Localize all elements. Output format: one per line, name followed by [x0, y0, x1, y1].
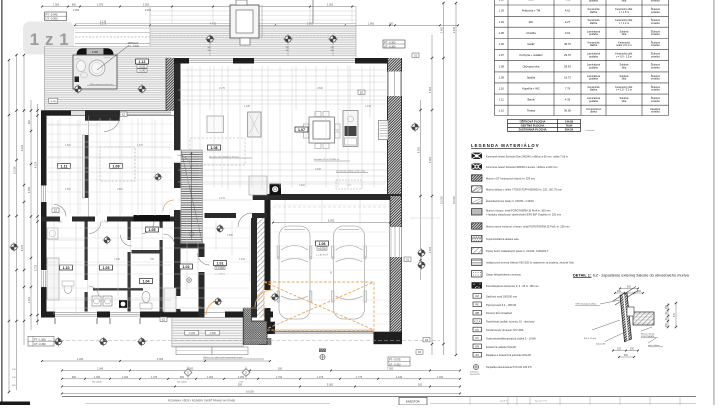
- legend entry wood chip: [472, 282, 539, 288]
- svg-text:150: 150: [617, 348, 622, 351]
- svg-text:exter. žalúzie: exter. žalúzie: [648, 344, 661, 347]
- dashed furniture zone 1.09: [100, 147, 135, 181]
- garage bottom wall and door: [259, 322, 402, 345]
- svg-text:PT: -0.340: PT: -0.340: [46, 12, 58, 16]
- entrance door swing orange: [206, 300, 221, 315]
- svg-text:200: 200: [637, 290, 642, 293]
- wall right of zadverie 1.01: [251, 218, 265, 318]
- svg-text:900: 900: [180, 376, 185, 379]
- svg-text:4.01: 4.01: [565, 0, 571, 1]
- legend symbol KV2: [473, 336, 536, 341]
- svg-text:dlažba: dlažba: [590, 22, 598, 25]
- svg-text:UT: -0.300: UT: -0.300: [34, 343, 46, 346]
- svg-text:1.12: 1.12: [139, 60, 146, 64]
- page badge 1 z 1: [23, 22, 74, 55]
- column symbol room 1.09: [154, 173, 163, 182]
- svg-text:1.06: 1.06: [499, 42, 505, 46]
- svg-text:35.70: 35.70: [564, 42, 571, 46]
- whirlpool: [73, 48, 117, 89]
- kitchen island: [248, 112, 261, 137]
- svg-text:podlaha: podlaha: [589, 33, 599, 36]
- svg-text:1.900: 1.900: [53, 4, 60, 7]
- room label 1.01: [214, 261, 227, 270]
- svg-text:Murivo nosné vnútorné z keram.: Murivo nosné vnútorné z keram. tehál POR…: [486, 225, 570, 229]
- section diamond symbol 2: [242, 366, 250, 380]
- svg-text:EZ: EZ: [162, 318, 166, 321]
- svg-text:PT: -0.300: PT: -0.300: [384, 41, 396, 44]
- wc 1.04 toilet: [140, 292, 152, 310]
- bottom note text partial: [85, 400, 330, 404]
- svg-text:Rozdeľovač podlah. kúrenia, 10: Rozdeľovač podlah. kúrenia, 10 - okruhov…: [486, 320, 535, 324]
- svg-text:Kuchyňa + Jedáleň: Kuchyňa + Jedáleň: [520, 53, 543, 57]
- svg-text:36.00: 36.00: [564, 108, 571, 112]
- svg-text:1.08: 1.08: [499, 64, 505, 68]
- svg-text:EN: EN: [475, 346, 479, 349]
- top chain drop lines: [172, 7, 352, 23]
- garage left wall: [265, 200, 271, 332]
- svg-text:dlažba: dlažba: [590, 89, 598, 92]
- svg-text:EZ: EZ: [122, 113, 126, 116]
- svg-text:1.400: 1.400: [122, 376, 129, 379]
- terrace door swing: [104, 116, 120, 132]
- svg-text:1.500: 1.500: [65, 145, 71, 147]
- svg-text:WC: WC: [529, 20, 534, 24]
- legend entry DT blocks: [472, 175, 536, 181]
- svg-text:2.200: 2.200: [145, 9, 152, 12]
- small level mark box C2: [49, 98, 58, 103]
- legend symbol RB: [473, 310, 513, 315]
- svg-text:1.05: 1.05: [499, 31, 505, 35]
- svg-text:862 (120R): 862 (120R): [177, 382, 187, 384]
- svg-text:1.475: 1.475: [317, 376, 324, 379]
- svg-text:5.000: 5.000: [429, 86, 432, 93]
- svg-text:200: 200: [665, 304, 668, 309]
- svg-text:1.450: 1.450: [94, 376, 101, 379]
- svg-text:+0.030: +0.030: [318, 247, 326, 250]
- pergola post line: [312, 0, 314, 23]
- outer wall left side: [41, 111, 47, 322]
- room label 1.12 Terasa: [136, 59, 149, 72]
- legend heading: [471, 143, 540, 148]
- svg-text:Murivo deliace z tehiel YTONG: Murivo deliace z tehiel YTONG P2/P4-500/…: [486, 188, 562, 192]
- garage right outer wall: [390, 196, 402, 344]
- svg-text:29.70: 29.70: [564, 53, 571, 57]
- PT UT level box top-left: [45, 12, 67, 21]
- svg-text:PT: -0.075: PT: -0.075: [389, 359, 401, 362]
- garage inner width dimension: [272, 220, 391, 224]
- svg-text:8.000: 8.000: [328, 220, 335, 223]
- vent stack symbol garage: [319, 349, 325, 360]
- svg-text:2.27: 2.27: [565, 20, 571, 24]
- svg-text:2.000: 2.000: [327, 4, 334, 7]
- left margin column symbol: [9, 242, 18, 251]
- svg-text:PK: PK: [476, 304, 480, 307]
- svg-text:Stupačka odvetrávania PVC DN 1: Stupačka odvetrávania PVC DN 100 ZTI: [486, 365, 532, 369]
- svg-text:2.175: 2.175: [219, 88, 225, 90]
- interior dimension tick labels: [58, 88, 372, 309]
- svg-text:3.725: 3.725: [35, 264, 38, 271]
- svg-text:dlažba: dlažba: [590, 44, 598, 47]
- svg-text:300: 300: [278, 368, 283, 371]
- legend entry YTONG: [472, 186, 562, 192]
- svg-text:UT: -0.300: UT: -0.300: [384, 45, 396, 48]
- small wall tag boxes: [52, 53, 430, 354]
- svg-text:Dĺžka exteriérová vírivka 4os.: Dĺžka exteriérová vírivka 4os.: [90, 83, 114, 86]
- svg-text:16.72: 16.72: [564, 75, 571, 79]
- terrace column symbol B: [137, 84, 146, 93]
- svg-text:250: 250: [630, 348, 635, 351]
- extra guide lines garage: [274, 205, 389, 324]
- svg-text:4.430: 4.430: [210, 23, 217, 26]
- svg-text:1.10: 1.10: [499, 87, 505, 91]
- legend symbol EN: [473, 344, 516, 349]
- svg-text:UT: -0.300: UT: -0.300: [389, 363, 401, 366]
- extra interior guide lines bedroom wing: [47, 118, 173, 214]
- interior door arcs: [54, 155, 252, 296]
- svg-text:1.100: 1.100: [28, 296, 31, 303]
- svg-text:omietka: omietka: [651, 22, 660, 25]
- svg-text:sokel v=0.1 m: sokel v=0.1 m: [616, 44, 632, 47]
- bottom dimension sub labels: [92, 382, 243, 384]
- bottom total dimension: [61, 391, 461, 395]
- svg-text:VZT: VZT: [347, 185, 352, 187]
- left end labels of bottom chains: [12, 369, 16, 387]
- fridge cabinet: [379, 121, 389, 140]
- column leader texts top: [207, 43, 334, 56]
- bottom column symbols: [54, 292, 280, 346]
- partition wall 1.05-1.04: [132, 250, 160, 254]
- svg-text:1.975: 1.975: [97, 4, 104, 7]
- svg-text:podlaha: podlaha: [589, 67, 599, 70]
- svg-text:Nevadela 700 al 700/1800 zvl.: Nevadela 700 al 700/1800 zvl.: [314, 159, 340, 161]
- svg-text:Tepelnoizolačná deliaca vata: Tepelnoizolačná deliaca vata: [486, 237, 519, 241]
- svg-text:1.040: 1.040: [77, 358, 84, 361]
- svg-text:DZ: DZ: [418, 351, 422, 354]
- legend symbol DZ: [473, 294, 517, 299]
- pool structure: [230, 0, 262, 45]
- svg-text:Nevadela 700x2100/800 k TV ste: Nevadela 700x2100/800 k TV stene: [209, 155, 239, 158]
- svg-text:DETAIL 1:: DETAIL 1:: [573, 273, 591, 278]
- svg-text:omietka: omietka: [651, 0, 660, 3]
- detail 1 heading: [573, 273, 690, 278]
- garage car 2: [332, 226, 367, 319]
- living room rug dashed: [190, 138, 245, 165]
- area summary table: [508, 118, 596, 132]
- svg-text:4.61: 4.61: [565, 9, 571, 13]
- svg-text:s = 35.70 m²: s = 35.70 m²: [316, 254, 328, 257]
- garage center mark: [330, 270, 333, 275]
- svg-text:Drevoštiepkové kamenivo fr. 0: Drevoštiepkové kamenivo fr. 0 - 63 hr. 1…: [486, 284, 539, 288]
- svg-text:Murivo z keram. tehál POROTHER: Murivo z keram. tehál POROTHERM 30 Profi…: [486, 209, 551, 213]
- right dimension chains: [418, 2, 458, 356]
- svg-text:300: 300: [238, 384, 243, 387]
- closet room 1.11: [83, 135, 85, 198]
- right side column symbols: [410, 122, 426, 269]
- svg-text:4.100: 4.100: [21, 144, 24, 151]
- svg-text:1.040: 1.040: [437, 376, 444, 379]
- svg-text:1.975: 1.975: [137, 145, 143, 147]
- legend entry insulation wool: [472, 235, 520, 241]
- svg-text:Dažďový zvod 100/100 mm: Dažďový zvod 100/100 mm: [486, 294, 517, 298]
- legend entry gravel fill: [472, 271, 522, 277]
- svg-text:2.800: 2.800: [117, 189, 123, 191]
- svg-text:KV: KV: [476, 329, 480, 332]
- svg-text:DN 100 ZTI: DN 100 ZTI: [470, 374, 480, 376]
- svg-text:Kúpeľňa + WC: Kúpeľňa + WC: [522, 87, 540, 91]
- svg-text:omietka: omietka: [651, 78, 660, 81]
- legend entry POROTHERM 25: [472, 223, 570, 229]
- section line dashed: [42, 340, 440, 342]
- svg-text:862 (120R): 862 (120R): [92, 382, 102, 384]
- room schedule table: [495, 0, 669, 115]
- svg-text:2.170: 2.170: [219, 198, 225, 200]
- legend symbol RJ: [473, 352, 531, 357]
- terrace chimney wall bar: [166, 58, 174, 111]
- svg-text:podlaha: podlaha: [589, 78, 599, 81]
- bedroom wing middle wall: [41, 215, 174, 222]
- svg-text:lišta: lišta: [622, 78, 627, 81]
- room label 1.03: [100, 265, 113, 270]
- svg-text:DZ: DZ: [476, 295, 480, 298]
- svg-text:250: 250: [665, 322, 668, 327]
- svg-text:Expanzná nádoba SOLAR: Expanzná nádoba SOLAR: [486, 345, 516, 349]
- svg-text:-0.090: -0.090: [209, 333, 216, 335]
- outer wall top of living wing: [174, 58, 402, 64]
- bathroom 1.10 fixtures: [47, 228, 143, 300]
- svg-text:-0.040: -0.040: [139, 69, 146, 72]
- left dimension chains: [8, 54, 39, 393]
- svg-text:Zásyp štrkopieskovou zeminou: Zásyp štrkopieskovou zeminou: [486, 272, 522, 276]
- svg-text:v = 1.5 m: v = 1.5 m: [619, 11, 629, 14]
- svg-text:EZ: EZ: [54, 209, 58, 212]
- svg-text:1.03: 1.03: [103, 266, 110, 270]
- svg-text:LEGENDA MATERIÁLOV: LEGENDA MATERIÁLOV: [471, 143, 540, 148]
- svg-text:4.075: 4.075: [35, 161, 38, 168]
- svg-text:1.12: 1.12: [499, 108, 505, 112]
- legend symbol KZA: [473, 319, 535, 324]
- svg-text:Ing. arch. P. S.: Ing. arch. P. S.: [535, 400, 548, 403]
- svg-text:900: 900: [28, 119, 31, 124]
- room label 1.08: [208, 145, 221, 150]
- svg-text:podlaha: podlaha: [589, 100, 599, 103]
- svg-text:VPV Kronatech 25/xx: VPV Kronatech 25/xx: [576, 303, 598, 306]
- outer wall right side living room: [388, 58, 402, 196]
- right paper edge line: [713, 0, 716, 405]
- terrace retaining wall lines left: [75, 20, 356, 43]
- svg-text:Terasa: Terasa: [527, 108, 536, 112]
- svg-text:omietka: omietka: [651, 33, 660, 36]
- left paper edge line: [1, 0, 2, 405]
- partition wall 1.11-1.09: [85, 116, 89, 217]
- detail 1 drawing: [575, 286, 677, 358]
- legend vent stack entry: [470, 364, 532, 376]
- svg-text:-0.010: -0.010: [189, 333, 196, 335]
- column symbols room 1.01: [214, 224, 225, 306]
- svg-text:8.000: 8.000: [418, 146, 421, 153]
- living room sofa: [207, 116, 267, 195]
- svg-text:+0.00: +0.00: [139, 65, 146, 68]
- room label 1.09: [110, 164, 123, 169]
- svg-text:Spálňa: Spálňa: [527, 75, 536, 79]
- outer wall bottom of left wing: [41, 312, 273, 318]
- svg-text:3.300: 3.300: [429, 156, 432, 163]
- svg-text:Prostý betón základových pásov: Prostý betón základových pásov tr. C16/2…: [486, 249, 549, 253]
- svg-text:12.000: 12.000: [14, 166, 17, 174]
- hallway 1.02 cabinet: [164, 288, 176, 312]
- svg-text:2.250: 2.250: [238, 376, 245, 379]
- svg-text:Garáž: Garáž: [527, 42, 535, 46]
- bottom left corner block: [0, 402, 30, 406]
- svg-text:omietka: omietka: [651, 67, 660, 70]
- svg-text:-0.340: -0.340: [50, 101, 57, 103]
- bottom separator line: [62, 396, 696, 398]
- svg-text:500: 500: [627, 286, 632, 289]
- svg-text:3.300: 3.300: [157, 358, 164, 361]
- svg-text:12.000: 12.000: [441, 196, 444, 204]
- svg-text:1.06: 1.06: [319, 242, 326, 246]
- garage side door swing orange: [255, 290, 273, 307]
- svg-text:2.400: 2.400: [315, 169, 321, 171]
- interior dimension lines horizontals: [46, 90, 440, 308]
- svg-text:UT: -0.300: UT: -0.300: [46, 17, 59, 21]
- chimney block: [270, 184, 282, 196]
- svg-text:15.000: 15.000: [453, 196, 456, 204]
- wall between living room and garage: [253, 194, 402, 200]
- svg-text:3.350: 3.350: [28, 186, 31, 193]
- partition wall 1.02-1.01: [199, 249, 205, 318]
- investor box: [399, 397, 427, 405]
- svg-text:lišta: lišta: [622, 33, 627, 36]
- partition wall 1.10-1.03: [85, 222, 88, 312]
- terrace paving hatch left: [45, 46, 172, 113]
- terrace column symbol A: [73, 84, 82, 93]
- porch caption underline: [203, 356, 264, 359]
- window sill stubs below bottom wall: [55, 318, 140, 324]
- bottom dimension chain row 2: [61, 368, 461, 372]
- extra interior guide lines bottom rooms: [47, 228, 250, 308]
- svg-text:4m –0.400: 4m –0.400: [128, 46, 140, 48]
- wall below staircase: [177, 244, 205, 249]
- svg-text:Ing. M. K.: Ing. M. K.: [500, 401, 509, 403]
- bottom dimension chain row 4: [61, 384, 461, 388]
- svg-text:v = 1.5 - 2.1 m: v = 1.5 - 2.1 m: [616, 89, 632, 92]
- legend entry reinforced concrete: [472, 197, 535, 203]
- bottom right table fragment: [430, 397, 696, 405]
- svg-text:Práčovňa + TM: Práčovňa + TM: [522, 9, 541, 13]
- svg-text:podlaha: podlaha: [589, 0, 599, 3]
- svg-text:4.430: 4.430: [396, 376, 403, 379]
- svg-text:1.09: 1.09: [499, 75, 505, 79]
- svg-text:omietka: omietka: [651, 55, 660, 58]
- svg-text:4.600: 4.600: [299, 185, 305, 187]
- svg-text:1.11: 1.11: [499, 98, 505, 102]
- svg-text:1.075: 1.075: [151, 376, 158, 379]
- svg-text:2.150: 2.150: [453, 26, 456, 33]
- svg-text:podlaha: podlaha: [589, 55, 599, 58]
- svg-text:PT: -1.060: PT: -1.060: [34, 338, 46, 341]
- svg-text:2.000: 2.000: [92, 51, 99, 54]
- svg-text:v = 0.9 - 1.5 m: v = 0.9 - 1.5 m: [616, 55, 632, 58]
- svg-text:6.475: 6.475: [21, 244, 24, 251]
- svg-text:DZ: DZ: [425, 339, 429, 342]
- svg-text:lišta: lišta: [622, 67, 627, 70]
- svg-text:5.000: 5.000: [327, 384, 334, 387]
- legend symbol KV1: [473, 327, 524, 332]
- svg-text:4.33: 4.33: [565, 98, 571, 102]
- svg-text:Murivo z DT betónových tvárnic: Murivo z DT betónových tvárnic hr. 250 m…: [486, 177, 535, 181]
- svg-text:1.05: 1.05: [149, 228, 156, 232]
- PT UT level box top-right: [383, 40, 405, 48]
- right PT UT box: [388, 357, 410, 366]
- svg-text:Plynový kotol 5.4 - 108 kW: Plynový kotol 5.4 - 108 kW: [486, 303, 517, 307]
- svg-text:+ fasádny zatepľovací systém/s: + fasádny zatepľovací systém/sokel EPS 8…: [486, 212, 561, 216]
- svg-text:KV: KV: [476, 337, 480, 340]
- svg-text:1.045: 1.045: [244, 106, 250, 108]
- legend entry POROTHERM 30: [472, 209, 562, 217]
- top dimension chain 1: [41, 4, 356, 8]
- svg-text:žalúzia EZ: žalúzia EZ: [596, 344, 606, 346]
- svg-text:omietka: omietka: [651, 89, 660, 92]
- svg-text:omietka: omietka: [651, 11, 660, 14]
- svg-text:1.700: 1.700: [276, 376, 283, 379]
- svg-text:1.500: 1.500: [227, 235, 233, 237]
- top dimension sublabels: [73, 9, 152, 12]
- svg-text:lišta: lišta: [622, 0, 627, 3]
- living room caption underline: [209, 155, 252, 158]
- kitchen counter: [343, 111, 358, 147]
- section diamond symbol 1: [184, 366, 192, 380]
- svg-text:1.500: 1.500: [65, 189, 71, 191]
- svg-text:204.55: 204.55: [565, 128, 574, 132]
- room label 1.11: [58, 164, 71, 169]
- svg-text:1.400: 1.400: [239, 259, 245, 261]
- top column symbol row: [205, 34, 337, 43]
- svg-text:Riadiaca a frekvenčná jednotka: Riadiaca a frekvenčná jednotka SOLAR: [486, 353, 531, 357]
- room label 1.06 garage: [316, 241, 329, 250]
- svg-text:omietka: omietka: [651, 100, 660, 103]
- svg-text:1.040: 1.040: [97, 368, 104, 371]
- svg-text:lišta: lišta: [622, 100, 627, 103]
- garage dashed guide line: [273, 206, 390, 208]
- svg-text:200: 200: [389, 23, 394, 26]
- bottom dimension chain row 3: [61, 376, 461, 380]
- svg-text:144.85: 144.85: [565, 119, 574, 123]
- svg-text:76.84: 76.84: [566, 123, 573, 127]
- svg-text:1.02: 1.02: [499, 0, 505, 1]
- svg-text:500: 500: [624, 354, 629, 357]
- interior dimension lines verticals: [54, 66, 370, 315]
- svg-text:2.400: 2.400: [441, 26, 444, 33]
- svg-text:RB: RB: [475, 312, 479, 315]
- svg-text:1.10: 1.10: [63, 266, 70, 270]
- boiler symbol black square: [119, 300, 127, 308]
- legend entry chimney 1: [472, 153, 568, 159]
- staircase: [181, 150, 203, 243]
- upper terrace paving hatch: [150, 7, 356, 57]
- legend symbol PK: [473, 302, 517, 307]
- svg-text:1.04: 1.04: [143, 280, 150, 284]
- partition wall 1.03-1.05: [128, 222, 131, 312]
- svg-text:28.42: 28.42: [564, 64, 571, 68]
- bottom dimension chain row 1: [41, 358, 271, 362]
- svg-text:200: 200: [617, 290, 622, 293]
- svg-text:dlažba: dlažba: [590, 11, 598, 14]
- svg-text:Chodba: Chodba: [526, 31, 536, 35]
- svg-text:Obývacia izba: Obývacia izba: [523, 64, 540, 68]
- svg-text:×: ×: [330, 270, 333, 275]
- svg-text:1.700: 1.700: [102, 222, 108, 224]
- svg-text:doska: doska: [590, 111, 597, 114]
